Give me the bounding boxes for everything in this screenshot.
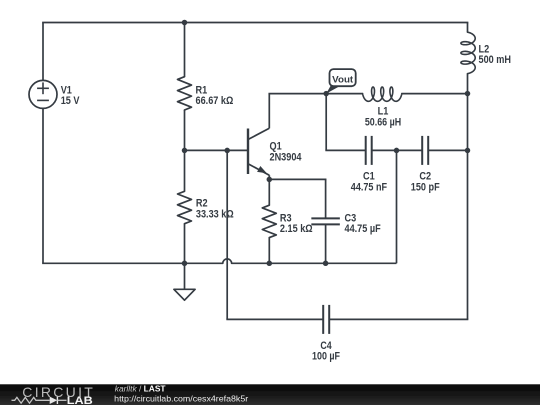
svg-text:http://circuitlab.com/cesx4ref: http://circuitlab.com/cesx4refa8k5r xyxy=(114,393,248,403)
svg-text:50.66 µH: 50.66 µH xyxy=(365,116,401,128)
svg-text:500 mH: 500 mH xyxy=(479,54,512,66)
svg-text:karlltk / LAST: karlltk / LAST xyxy=(115,384,167,394)
svg-text:LAB: LAB xyxy=(67,395,93,405)
svg-text:15 V: 15 V xyxy=(61,95,80,107)
svg-text:66.67 kΩ: 66.67 kΩ xyxy=(196,95,234,107)
svg-text:44.75 µF: 44.75 µF xyxy=(345,223,381,235)
svg-text:33.33 kΩ: 33.33 kΩ xyxy=(196,208,234,220)
svg-text:2.15 kΩ: 2.15 kΩ xyxy=(280,223,313,235)
svg-text:44.75 nF: 44.75 nF xyxy=(351,181,387,193)
svg-text:100 µF: 100 µF xyxy=(312,351,340,363)
svg-text:2N3904: 2N3904 xyxy=(270,151,303,163)
svg-text:150 pF: 150 pF xyxy=(411,181,440,193)
svg-text:Vout: Vout xyxy=(332,74,354,85)
